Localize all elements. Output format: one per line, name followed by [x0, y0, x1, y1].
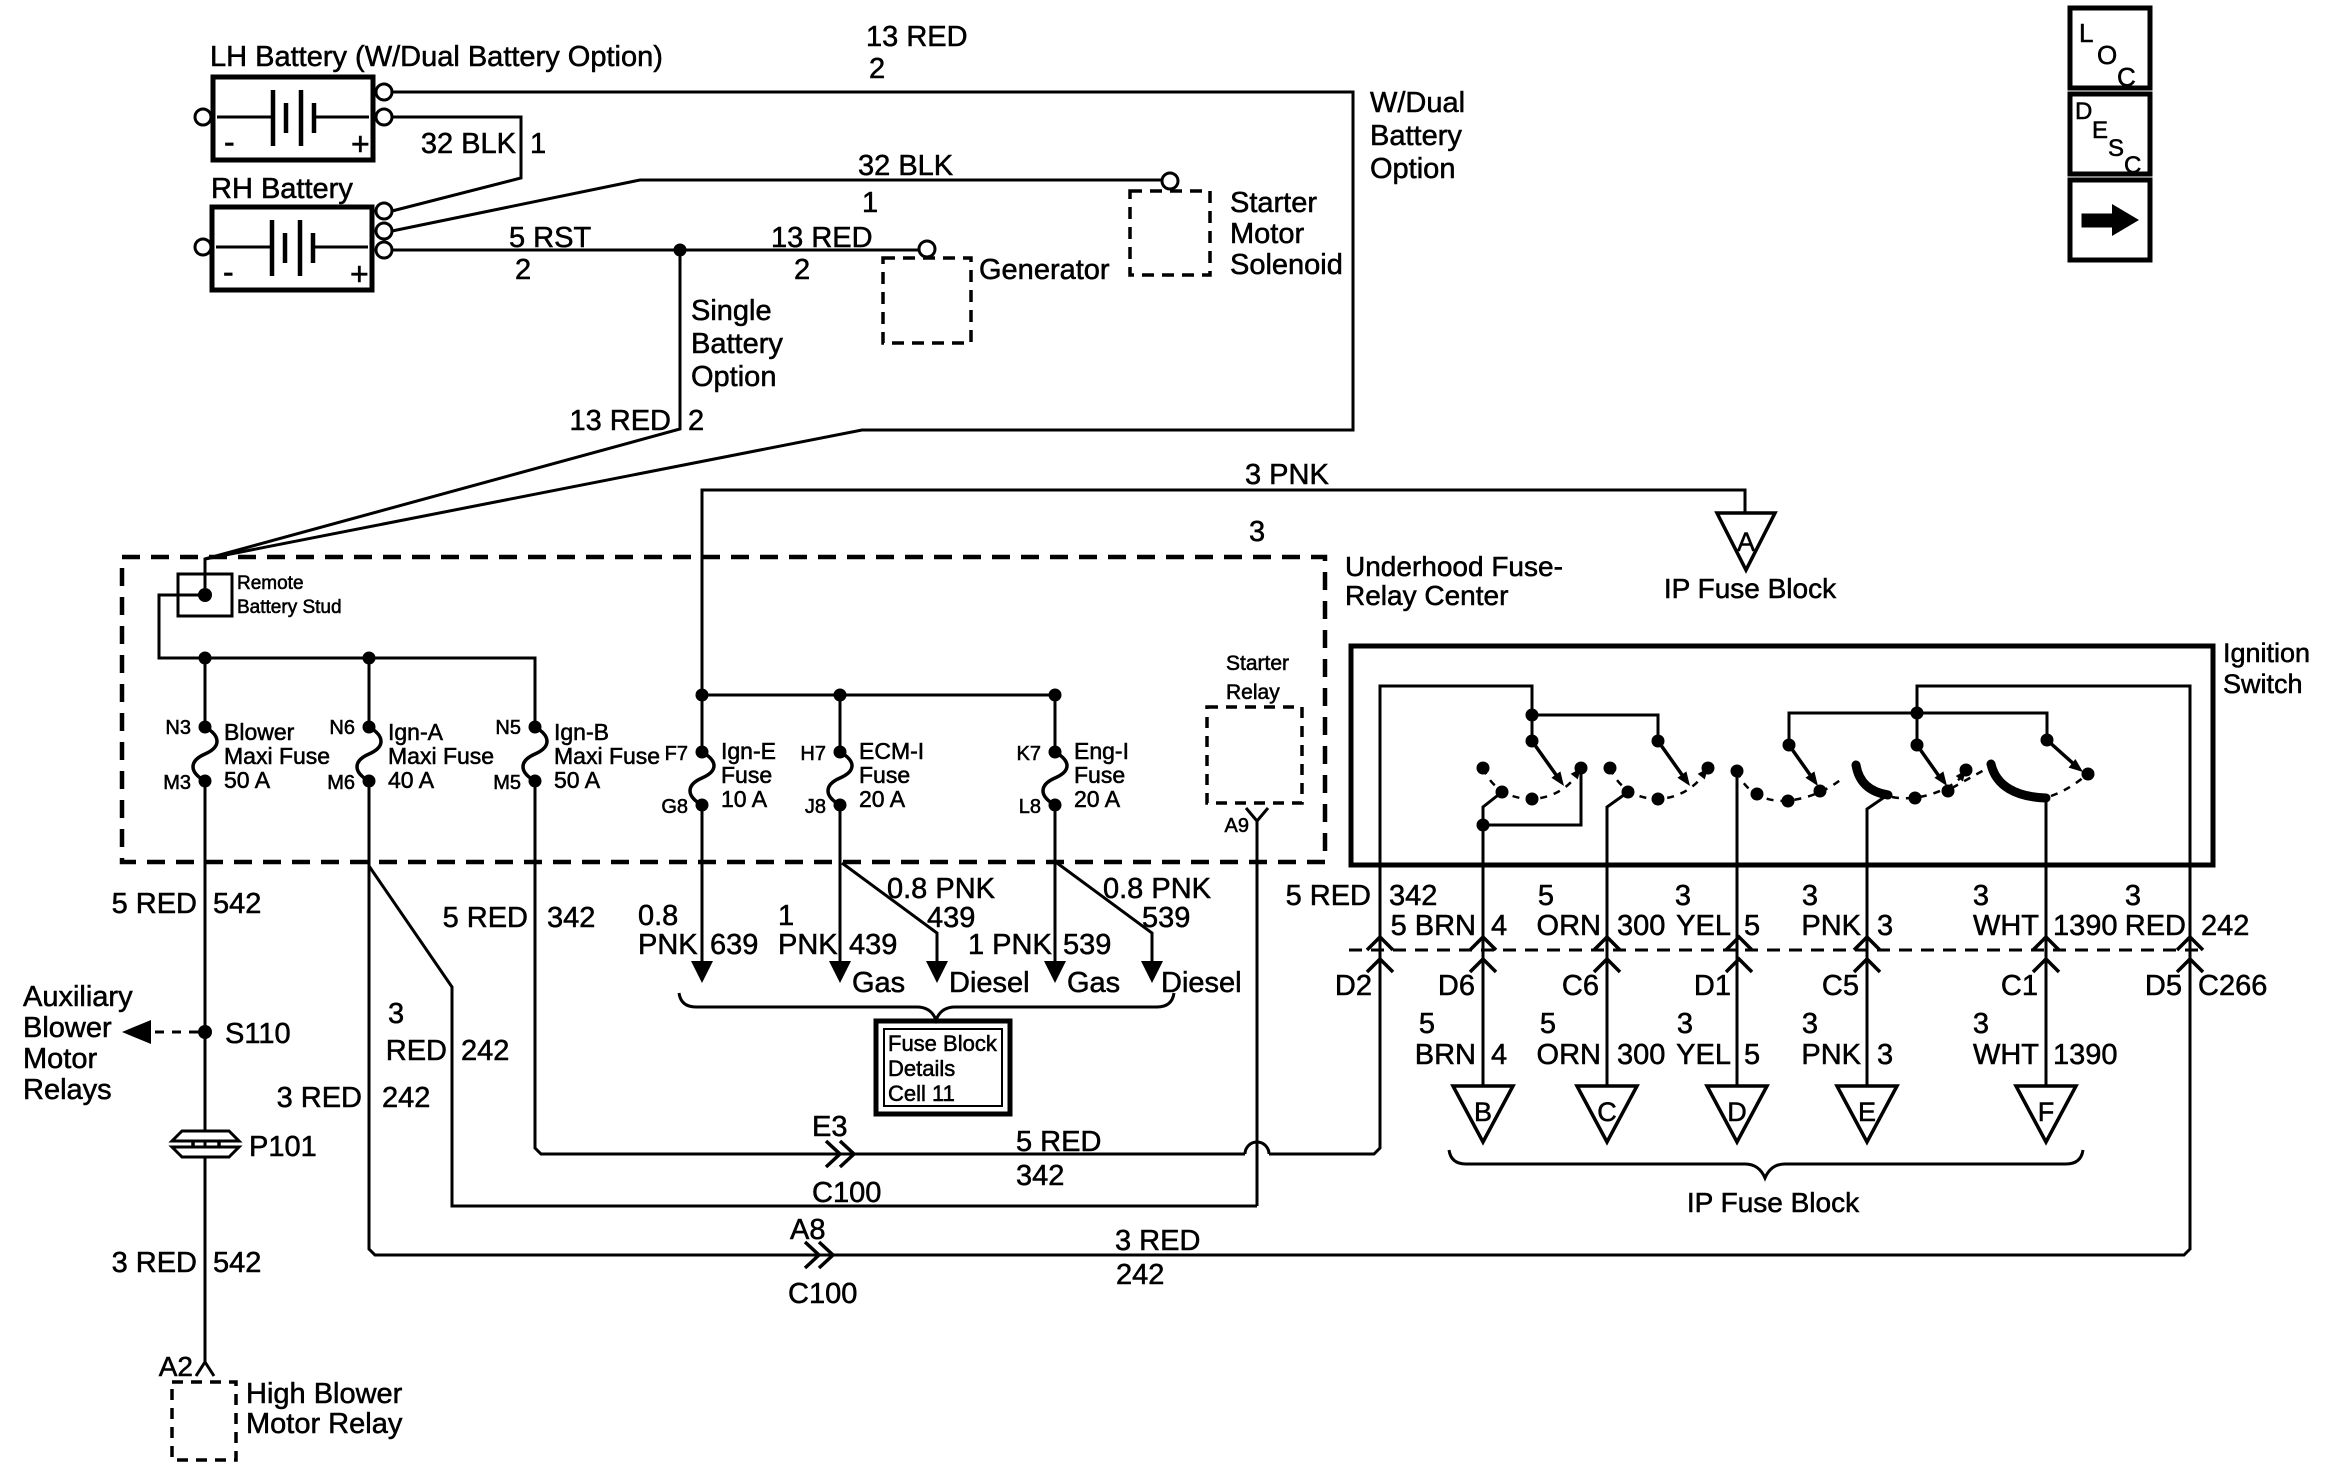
- connector F triangle: [2016, 1086, 2076, 1142]
- wire E3 hop over A9: [1245, 1142, 1269, 1154]
- terminal RH battery right 1: [376, 203, 392, 219]
- chevrons C266 C6: [1594, 937, 1620, 950]
- arrow auxiliary relays: [122, 1020, 151, 1044]
- wire D1 output to connector D: [1736, 771, 1739, 1086]
- label H7: [800, 743, 826, 765]
- node bus junction N6: [363, 652, 376, 665]
- svg-text:C: C: [2117, 62, 2136, 92]
- svg-text:+: +: [350, 256, 369, 292]
- switch pole3 arm: [1789, 745, 1813, 779]
- svg-text:3: 3: [1973, 880, 1989, 912]
- svg-text:Fuse: Fuse: [1074, 762, 1125, 788]
- wire pole5 to C1 output: [2045, 798, 2048, 863]
- label Ign-B Maxi Fuse 50 A: [554, 719, 660, 793]
- svg-text:IP Fuse Block: IP Fuse Block: [1664, 573, 1837, 604]
- label 3 PNK 3 lower: [1801, 1008, 1893, 1071]
- label D1: [1694, 970, 1731, 1002]
- node feed junction H7: [834, 689, 847, 702]
- svg-text:D2: D2: [1335, 970, 1372, 1002]
- high blower motor relay dashed box: [172, 1382, 236, 1460]
- svg-text:F: F: [2038, 1097, 2055, 1127]
- svg-text:50 A: 50 A: [224, 767, 271, 793]
- node pole2 pivot: [1652, 735, 1665, 748]
- connector A9 starter relay: [1246, 808, 1268, 821]
- svg-text:13 RED: 13 RED: [771, 222, 873, 254]
- label N6: [329, 717, 355, 739]
- svg-text:RH Battery: RH Battery: [211, 173, 353, 205]
- svg-text:E: E: [1858, 1097, 1876, 1127]
- switch pole3 arc: [1737, 771, 1844, 808]
- svg-text:1390: 1390: [2053, 1039, 2118, 1071]
- label 3 YEL 5 upper: [1675, 880, 1760, 942]
- svg-text:C100: C100: [812, 1177, 881, 1209]
- svg-text:Motor: Motor: [1230, 218, 1304, 250]
- node remote battery stud: [198, 588, 212, 602]
- svg-text:Ign-B: Ign-B: [554, 719, 609, 745]
- legend DESC box: [2070, 94, 2150, 179]
- label 5 BRN 4 lower: [1415, 1008, 1507, 1071]
- label 5 RED 342 left: [443, 902, 596, 934]
- svg-text:Generator: Generator: [979, 254, 1110, 286]
- svg-text:Ignition: Ignition: [2223, 638, 2310, 668]
- switch pole4 arc right: [1892, 764, 1973, 805]
- wire pole1 branch to pole2: [1532, 715, 1658, 741]
- starter relay dashed box: [1207, 707, 1302, 803]
- svg-text:1390: 1390: [2053, 910, 2118, 942]
- wire A9 drop: [1256, 821, 1259, 1206]
- svg-text:242: 242: [461, 1035, 509, 1067]
- terminal starter solenoid: [1162, 173, 1178, 189]
- svg-text:3 RED: 3 RED: [277, 1082, 362, 1114]
- label Starter Relay: [1226, 652, 1289, 704]
- svg-text:0.8 PNK: 0.8 PNK: [1103, 873, 1212, 905]
- label L8: [1019, 796, 1041, 818]
- label Eng-I Fuse 20 A: [1074, 738, 1129, 812]
- wire M6 diagonal branch to A9 line: [369, 866, 1257, 1206]
- svg-text:Motor: Motor: [23, 1043, 97, 1075]
- svg-text:Solenoid: Solenoid: [1230, 249, 1343, 281]
- svg-text:N6: N6: [329, 717, 355, 739]
- wire 5 RST / 13 RED to generator: [392, 249, 919, 252]
- label N5: [495, 717, 521, 739]
- svg-text:L8: L8: [1019, 796, 1041, 818]
- label 0.8 PNK 639: [638, 900, 758, 961]
- svg-text:Cell 11: Cell 11: [888, 1081, 955, 1106]
- wire pole4 to C5 output: [1867, 796, 1886, 863]
- label Gas 2: [1067, 967, 1120, 999]
- wire L8 output arrow Gas: [1054, 805, 1057, 962]
- svg-text:32 BLK: 32 BLK: [858, 150, 954, 182]
- switch pole5 arc: [1952, 769, 1986, 788]
- svg-text:RED: RED: [2125, 910, 2186, 942]
- fuse Ign-E Fuse 10A F7/G8: [690, 746, 714, 812]
- legend LOC box: [2070, 8, 2150, 92]
- svg-text:Fuse: Fuse: [859, 762, 910, 788]
- svg-text:2: 2: [688, 405, 704, 437]
- svg-text:C5: C5: [1822, 970, 1859, 1002]
- label Auxiliary Blower Motor Relays: [23, 981, 133, 1106]
- svg-text:5: 5: [1744, 910, 1760, 942]
- svg-text:WHT: WHT: [1973, 910, 2039, 942]
- wire H7 drop: [839, 695, 842, 752]
- remote battery stud box: [178, 574, 232, 616]
- ignition switch box: [1351, 646, 2213, 865]
- svg-text:J8: J8: [805, 796, 826, 818]
- svg-text:W/Dual: W/Dual: [1370, 87, 1465, 119]
- svg-text:3: 3: [2125, 880, 2141, 912]
- terminal generator: [919, 241, 935, 257]
- svg-text:1: 1: [778, 900, 794, 932]
- switch pole5 thick arc: [1991, 764, 2046, 798]
- svg-text:5 RED: 5 RED: [1286, 880, 1371, 912]
- svg-text:2: 2: [869, 53, 885, 85]
- label F7: [665, 743, 688, 765]
- svg-text:20 A: 20 A: [1074, 786, 1121, 812]
- chevron A8 C100: [805, 1242, 819, 1268]
- svg-text:BRN: BRN: [1415, 1039, 1476, 1071]
- label A2: [159, 1351, 193, 1382]
- wire 13 RED 2 top / W-Dual loop: [205, 92, 1353, 588]
- svg-text:PNK: PNK: [1801, 1039, 1861, 1071]
- wire small fuse feed bus: [702, 694, 1055, 697]
- svg-text:E3: E3: [812, 1111, 847, 1143]
- svg-text:A9: A9: [1225, 815, 1249, 837]
- label 3 PNK 3 upper: [1801, 880, 1893, 942]
- label 13 RED 2 top: [866, 21, 968, 85]
- label 13 RED 2 single battery: [569, 405, 704, 437]
- svg-text:M6: M6: [327, 772, 355, 794]
- svg-text:2: 2: [515, 254, 531, 286]
- svg-text:Remote: Remote: [237, 573, 304, 594]
- switch pole6 arm: [2047, 740, 2076, 766]
- battery LH Battery: [213, 77, 373, 162]
- svg-text:5 RED: 5 RED: [1016, 1126, 1101, 1158]
- label 1 PNK 539: [968, 929, 1111, 961]
- svg-text:242: 242: [1116, 1259, 1164, 1291]
- starter motor solenoid dashed box: [1130, 191, 1210, 275]
- svg-text:-: -: [224, 124, 235, 160]
- fuse block details box: [876, 1021, 1010, 1114]
- svg-text:Details: Details: [888, 1056, 955, 1081]
- wire M5 output down to E3 line: [535, 781, 1245, 1154]
- svg-text:S110: S110: [225, 1018, 291, 1050]
- svg-text:Blower: Blower: [224, 719, 295, 745]
- svg-text:3: 3: [1802, 1008, 1818, 1040]
- node pole1 pivot: [1526, 735, 1539, 748]
- switch pole2 arm: [1658, 741, 1685, 779]
- svg-text:5 RED: 5 RED: [443, 902, 528, 934]
- svg-text:639: 639: [710, 929, 758, 961]
- fuse ECM-I Fuse 20A H7/J8: [828, 746, 852, 812]
- svg-text:5: 5: [1538, 880, 1554, 912]
- wire J8 diesel diagonal arrow: [842, 863, 937, 962]
- svg-text:32 BLK: 32 BLK: [421, 128, 517, 160]
- svg-text:PNK: PNK: [1801, 910, 1861, 942]
- connector D triangle: [1707, 1086, 1767, 1142]
- svg-text:300: 300: [1617, 910, 1665, 942]
- svg-text:3 RED: 3 RED: [1115, 1225, 1200, 1257]
- wire 32 BLK 1 to starter solenoid: [392, 180, 1162, 231]
- connector A triangle IP fuse block: [1717, 513, 1775, 570]
- svg-text:3: 3: [1877, 910, 1893, 942]
- brace IP fuse block: [1449, 1150, 2083, 1178]
- label G8: [661, 796, 688, 818]
- label C6: [1562, 970, 1599, 1002]
- label 32 BLK 1 jumper: [421, 128, 546, 160]
- svg-text:Relay: Relay: [1226, 681, 1280, 704]
- wire C6 output to connector C: [1606, 807, 1609, 1086]
- svg-text:Switch: Switch: [2223, 669, 2303, 699]
- battery RH Battery: [212, 207, 372, 292]
- legend arrow box: [2070, 180, 2150, 260]
- label 1 PNK 439: [778, 900, 897, 961]
- chevrons C266 C5: [1854, 937, 1880, 950]
- svg-text:D1: D1: [1694, 970, 1731, 1002]
- svg-text:G8: G8: [661, 796, 688, 818]
- wire D5 output to A8 line: [2189, 686, 2192, 1250]
- svg-text:Battery Stud: Battery Stud: [237, 597, 342, 618]
- label 5 RST 2: [509, 222, 591, 286]
- connector C266 dashed line: [1349, 949, 2200, 952]
- svg-text:5: 5: [1540, 1008, 1556, 1040]
- svg-text:LH Battery (W/Dual Battery Opt: LH Battery (W/Dual Battery Option): [210, 41, 663, 73]
- terminal LH battery right bottom: [376, 109, 392, 125]
- label 32 BLK 1 solenoid wire: [858, 150, 954, 219]
- svg-text:3 RED: 3 RED: [112, 1247, 197, 1279]
- label Ign-E Fuse 10 A: [721, 738, 776, 812]
- label A8 connector: [790, 1214, 825, 1246]
- label 5 RED 342 ignition: [1286, 880, 1438, 912]
- wire L8 diesel diagonal arrow: [1057, 863, 1152, 962]
- label 3 WHT 1390 upper: [1973, 880, 2118, 942]
- label M5: [493, 772, 521, 794]
- label ECM-I Fuse 20 A: [859, 738, 924, 812]
- svg-text:D5: D5: [2145, 970, 2182, 1002]
- label P101: [249, 1131, 317, 1163]
- label N3: [165, 717, 191, 739]
- label 3 RED 242 upper: [2125, 880, 2250, 942]
- wire single battery option drop: [205, 250, 680, 559]
- terminal RH battery right 3: [376, 242, 392, 258]
- terminal LH battery left: [195, 109, 211, 125]
- node D1 arc end: [1731, 765, 1744, 778]
- wire ignition feed D2 riser to pole1: [1380, 686, 1532, 865]
- svg-text:Relays: Relays: [23, 1074, 112, 1106]
- label C100 E3: [812, 1177, 881, 1209]
- label 3 RED 542: [112, 1247, 262, 1279]
- chevrons C266 D1: [1726, 937, 1752, 950]
- svg-text:+: +: [351, 126, 370, 162]
- node y713/y686 junction: [1911, 707, 1924, 720]
- connector E triangle: [1837, 1086, 1897, 1142]
- label 5 ORN 300 upper: [1537, 880, 1666, 942]
- svg-text:0.8: 0.8: [638, 900, 678, 932]
- label Generator: [979, 254, 1110, 286]
- svg-text:13 RED: 13 RED: [866, 21, 968, 53]
- svg-text:1: 1: [530, 128, 546, 160]
- node pole5 pivot: [1911, 739, 1924, 752]
- svg-text:RED: RED: [386, 1035, 447, 1067]
- svg-text:242: 242: [382, 1082, 430, 1114]
- wire F7 drop: [701, 695, 704, 752]
- label 3 WHT 1390 lower: [1973, 1008, 2118, 1071]
- svg-text:N3: N3: [165, 717, 191, 739]
- svg-text:3: 3: [1973, 1008, 1989, 1040]
- label S110: [225, 1018, 291, 1050]
- svg-text:539: 539: [1142, 902, 1190, 934]
- svg-text:C: C: [1597, 1097, 1617, 1127]
- svg-text:Gas: Gas: [852, 967, 905, 999]
- svg-text:PNK: PNK: [638, 929, 698, 961]
- label 5 BRN 4 upper: [1391, 910, 1508, 942]
- svg-text:ORN: ORN: [1537, 1039, 1601, 1071]
- svg-text:P101: P101: [249, 1131, 317, 1163]
- label 5 RED 342 E3 line: [1016, 1126, 1101, 1192]
- svg-text:5 RST: 5 RST: [509, 222, 591, 254]
- svg-text:539: 539: [1063, 929, 1111, 961]
- wire E3 line to D2 riser: [1269, 866, 1380, 1154]
- svg-text:542: 542: [213, 1247, 261, 1279]
- wire D6 output to connector B: [1482, 825, 1485, 1086]
- svg-text:4: 4: [1491, 1039, 1507, 1071]
- label IP Fuse Block top: [1664, 573, 1837, 604]
- svg-text:342: 342: [1389, 880, 1437, 912]
- svg-text:20 A: 20 A: [859, 786, 906, 812]
- label E3 connector: [812, 1111, 847, 1143]
- terminal LH battery right top: [376, 84, 392, 100]
- svg-text:M5: M5: [493, 772, 521, 794]
- wire 3 PNK 3 to IP fuse block: [702, 490, 1745, 695]
- svg-text:ORN: ORN: [1537, 910, 1601, 942]
- svg-text:0.8 PNK: 0.8 PNK: [887, 873, 996, 905]
- svg-text:Option: Option: [1370, 153, 1455, 185]
- svg-text:Starter: Starter: [1230, 187, 1317, 219]
- fuse Ign-B Maxi Fuse 50A N5/M5: [523, 721, 547, 788]
- svg-text:Fuse Block: Fuse Block: [888, 1031, 998, 1056]
- svg-text:5: 5: [1744, 1039, 1760, 1071]
- svg-text:K7: K7: [1017, 743, 1041, 765]
- wire pole1 contact to D6 output: [1483, 771, 1581, 825]
- svg-text:Ign-E: Ign-E: [721, 738, 776, 764]
- svg-text:Maxi Fuse: Maxi Fuse: [388, 743, 494, 769]
- label 3 RED 242 single: [277, 1082, 431, 1114]
- svg-text:H7: H7: [800, 743, 826, 765]
- svg-text:Single: Single: [691, 295, 772, 327]
- wire M3 output 5 RED 542: [204, 781, 207, 1362]
- svg-text:3: 3: [1675, 880, 1691, 912]
- svg-text:M3: M3: [163, 772, 191, 794]
- svg-text:Underhood Fuse-: Underhood Fuse-: [1345, 551, 1563, 582]
- chevron E3 C100: [826, 1141, 840, 1167]
- label C1: [2001, 970, 2038, 1002]
- svg-text:5 RED: 5 RED: [112, 888, 197, 920]
- switch pole1 arm: [1532, 741, 1559, 779]
- node feed junction F7: [696, 689, 709, 702]
- svg-text:1 PNK: 1 PNK: [968, 929, 1052, 961]
- svg-text:A: A: [1737, 527, 1755, 557]
- label 5 ORN 300 lower: [1537, 1008, 1666, 1071]
- svg-text:D: D: [1727, 1097, 1747, 1127]
- svg-text:S: S: [2108, 135, 2124, 162]
- label Ignition Switch: [2223, 638, 2310, 699]
- svg-text:C6: C6: [1562, 970, 1599, 1002]
- connector B triangle: [1453, 1086, 1513, 1142]
- wire J8 output arrow Gas: [839, 805, 842, 962]
- svg-text:3: 3: [1802, 880, 1818, 912]
- svg-text:O: O: [2097, 40, 2117, 70]
- chevrons C266 C1: [2033, 937, 2059, 950]
- node S110: [198, 1025, 212, 1039]
- wire C5 output to connector E: [1866, 809, 1869, 1086]
- label D6: [1438, 970, 1475, 1002]
- label 3 YEL 5 lower: [1676, 1008, 1760, 1071]
- svg-text:3: 3: [1877, 1039, 1893, 1071]
- label Gas 1: [852, 967, 905, 999]
- wire bus y686 to D5: [1917, 686, 2190, 863]
- svg-text:4: 4: [1491, 910, 1507, 942]
- svg-text:3: 3: [1677, 1008, 1693, 1040]
- svg-text:40 A: 40 A: [388, 767, 435, 793]
- svg-text:1: 1: [862, 187, 878, 219]
- node bus junction N3: [199, 652, 212, 665]
- svg-text:C: C: [2124, 152, 2141, 179]
- svg-text:50 A: 50 A: [554, 767, 601, 793]
- label IP Fuse Block bottom: [1687, 1187, 1860, 1218]
- fuse Blower Maxi Fuse 50A N3/M3: [193, 721, 217, 788]
- svg-text:Relay Center: Relay Center: [1345, 580, 1508, 611]
- svg-text:342: 342: [1016, 1160, 1064, 1192]
- svg-text:C100: C100: [788, 1278, 857, 1310]
- label Diesel 2: [1161, 967, 1242, 999]
- svg-text:ECM-I: ECM-I: [859, 738, 924, 764]
- svg-text:Maxi Fuse: Maxi Fuse: [224, 743, 330, 769]
- label C100 A8: [788, 1278, 857, 1310]
- svg-text:Diesel: Diesel: [949, 967, 1030, 999]
- svg-text:Gas: Gas: [1067, 967, 1120, 999]
- svg-text:Fuse: Fuse: [721, 762, 772, 788]
- terminal RH battery left: [195, 239, 211, 255]
- chevrons C266 D2: [1367, 937, 1393, 950]
- svg-text:D6: D6: [1438, 970, 1475, 1002]
- svg-text:F7: F7: [665, 743, 688, 765]
- connector A2: [196, 1362, 214, 1376]
- svg-text:3: 3: [388, 998, 404, 1030]
- label Diesel 1: [949, 967, 1030, 999]
- node junction single battery tap: [674, 244, 687, 257]
- svg-text:Battery: Battery: [1370, 120, 1462, 152]
- label C266: [2198, 970, 2267, 1002]
- svg-text:3 PNK: 3 PNK: [1245, 459, 1329, 491]
- svg-text:242: 242: [2201, 910, 2249, 942]
- svg-text:-: -: [223, 254, 234, 290]
- label 3 PNK 3: [1245, 459, 1329, 548]
- node pole3 pivot: [1783, 739, 1796, 752]
- node pole6 pivot: [2041, 734, 2054, 747]
- wire 32 BLK 1 battery jumper: [392, 117, 521, 211]
- svg-text:439: 439: [849, 929, 897, 961]
- label 3 RED 242 two-line: [386, 998, 510, 1067]
- svg-text:Ign-A: Ign-A: [388, 719, 444, 745]
- svg-text:C1: C1: [2001, 970, 2038, 1002]
- svg-text:10 A: 10 A: [721, 786, 768, 812]
- label D5: [2145, 970, 2182, 1002]
- label Starter Motor Solenoid: [1230, 187, 1343, 281]
- label C5: [1822, 970, 1859, 1002]
- connector C triangle: [1577, 1086, 1637, 1142]
- svg-text:E: E: [2092, 117, 2108, 144]
- svg-text:2: 2: [794, 254, 810, 286]
- chevrons C266 D6: [1470, 937, 1496, 950]
